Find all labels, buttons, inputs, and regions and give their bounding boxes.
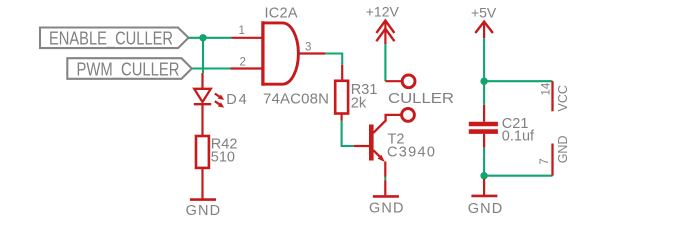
connector pad CULLER-2	[402, 109, 415, 122]
wire LED to R42	[201, 104, 203, 136]
svg-text:0.1uf: 0.1uf	[502, 129, 535, 145]
capacitor C21 top lead	[483, 105, 485, 122]
svg-text:74AC08N: 74AC08N	[263, 90, 329, 107]
pin 3 of IC2A	[299, 52, 326, 54]
T2 collector	[373, 115, 401, 133]
LED emission arrow 1	[215, 94, 224, 100]
supply +5V arrow	[475, 22, 493, 39]
capacitor C21 bottom lead	[483, 134, 485, 148]
svg-text:14: 14	[541, 82, 553, 95]
T2 emitter arrowhead	[378, 155, 385, 162]
pin 2 of IC2A	[231, 67, 263, 69]
wire +5V down	[483, 38, 485, 105]
svg-text:GND: GND	[468, 201, 503, 217]
svg-text:1: 1	[239, 25, 245, 37]
AND gate IC2A body	[263, 21, 299, 85]
wire R42 to GND	[201, 168, 203, 199]
svg-text:IC2A: IC2A	[265, 6, 298, 22]
svg-text:+5V: +5V	[471, 5, 497, 21]
T2 emitter	[373, 150, 381, 158]
wire to ground under C21	[483, 179, 485, 195]
svg-text:GND: GND	[556, 136, 570, 164]
resistor R42	[196, 136, 209, 168]
IC2 GND pin 7	[551, 144, 553, 176]
supply +12V arrow	[376, 21, 394, 45]
net label PWM_CULLER	[67, 58, 192, 80]
wire gate output to R31	[325, 54, 342, 65]
svg-text:C3940: C3940	[387, 144, 435, 160]
wire C21 to GND rail	[483, 148, 485, 176]
LED D4 triangle	[194, 89, 211, 102]
IC2 VCC pin 14	[551, 81, 553, 111]
net segment to GND	[384, 177, 386, 181]
emitter wire down	[384, 162, 386, 177]
svg-text:2k: 2k	[351, 96, 367, 112]
wire junction down to LED	[202, 38, 204, 73]
LED D4 anode lead	[201, 73, 203, 89]
LED D4 cathode bar	[194, 103, 211, 105]
LED emission arrow 2	[215, 101, 224, 107]
svg-text:VCC: VCC	[556, 85, 570, 111]
wire VCC rail	[484, 80, 552, 82]
junction node on ENABLE_CULLER net	[199, 34, 206, 41]
R31 bottom pin	[341, 114, 343, 121]
transistor T2 base bar	[369, 125, 374, 161]
wire ENABLE_CULLER to gate pin 1	[189, 37, 232, 39]
svg-text:PWM_CULLER: PWM_CULLER	[77, 58, 180, 80]
pin 1 of IC2A	[232, 37, 263, 39]
capacitor C21 plates	[469, 124, 498, 132]
GND pin under T2	[384, 180, 386, 195]
svg-text:GND: GND	[186, 203, 221, 218]
svg-text:GND: GND	[369, 201, 404, 217]
svg-text:D4: D4	[226, 92, 249, 108]
CULLER pin 1 lead	[385, 80, 402, 82]
R31 top pin	[341, 65, 343, 81]
svg-text:3: 3	[305, 41, 311, 53]
net label ENABLE_CULLER	[40, 28, 189, 50]
svg-text:+12V: +12V	[366, 4, 400, 20]
ground under T2	[373, 195, 399, 198]
svg-text:CULLER: CULLER	[388, 91, 454, 107]
svg-text:ENABLE_CULLER: ENABLE_CULLER	[49, 28, 173, 50]
ground under C21	[471, 195, 497, 198]
wire GND rail	[484, 175, 552, 177]
junction node at GND rail	[480, 172, 487, 179]
resistor R31	[335, 81, 348, 114]
svg-text:2: 2	[240, 57, 246, 69]
ground under R42	[190, 198, 216, 201]
T2 base pin	[354, 145, 369, 147]
connector pad CULLER-1	[402, 75, 415, 88]
wire +12V down	[384, 44, 386, 81]
svg-text:510: 510	[211, 150, 235, 166]
svg-text:7: 7	[539, 158, 551, 164]
wire R31 to T2 base	[342, 121, 354, 147]
wire PWM_CULLER to gate pin 2	[192, 67, 231, 69]
junction node at VCC rail	[480, 78, 487, 85]
